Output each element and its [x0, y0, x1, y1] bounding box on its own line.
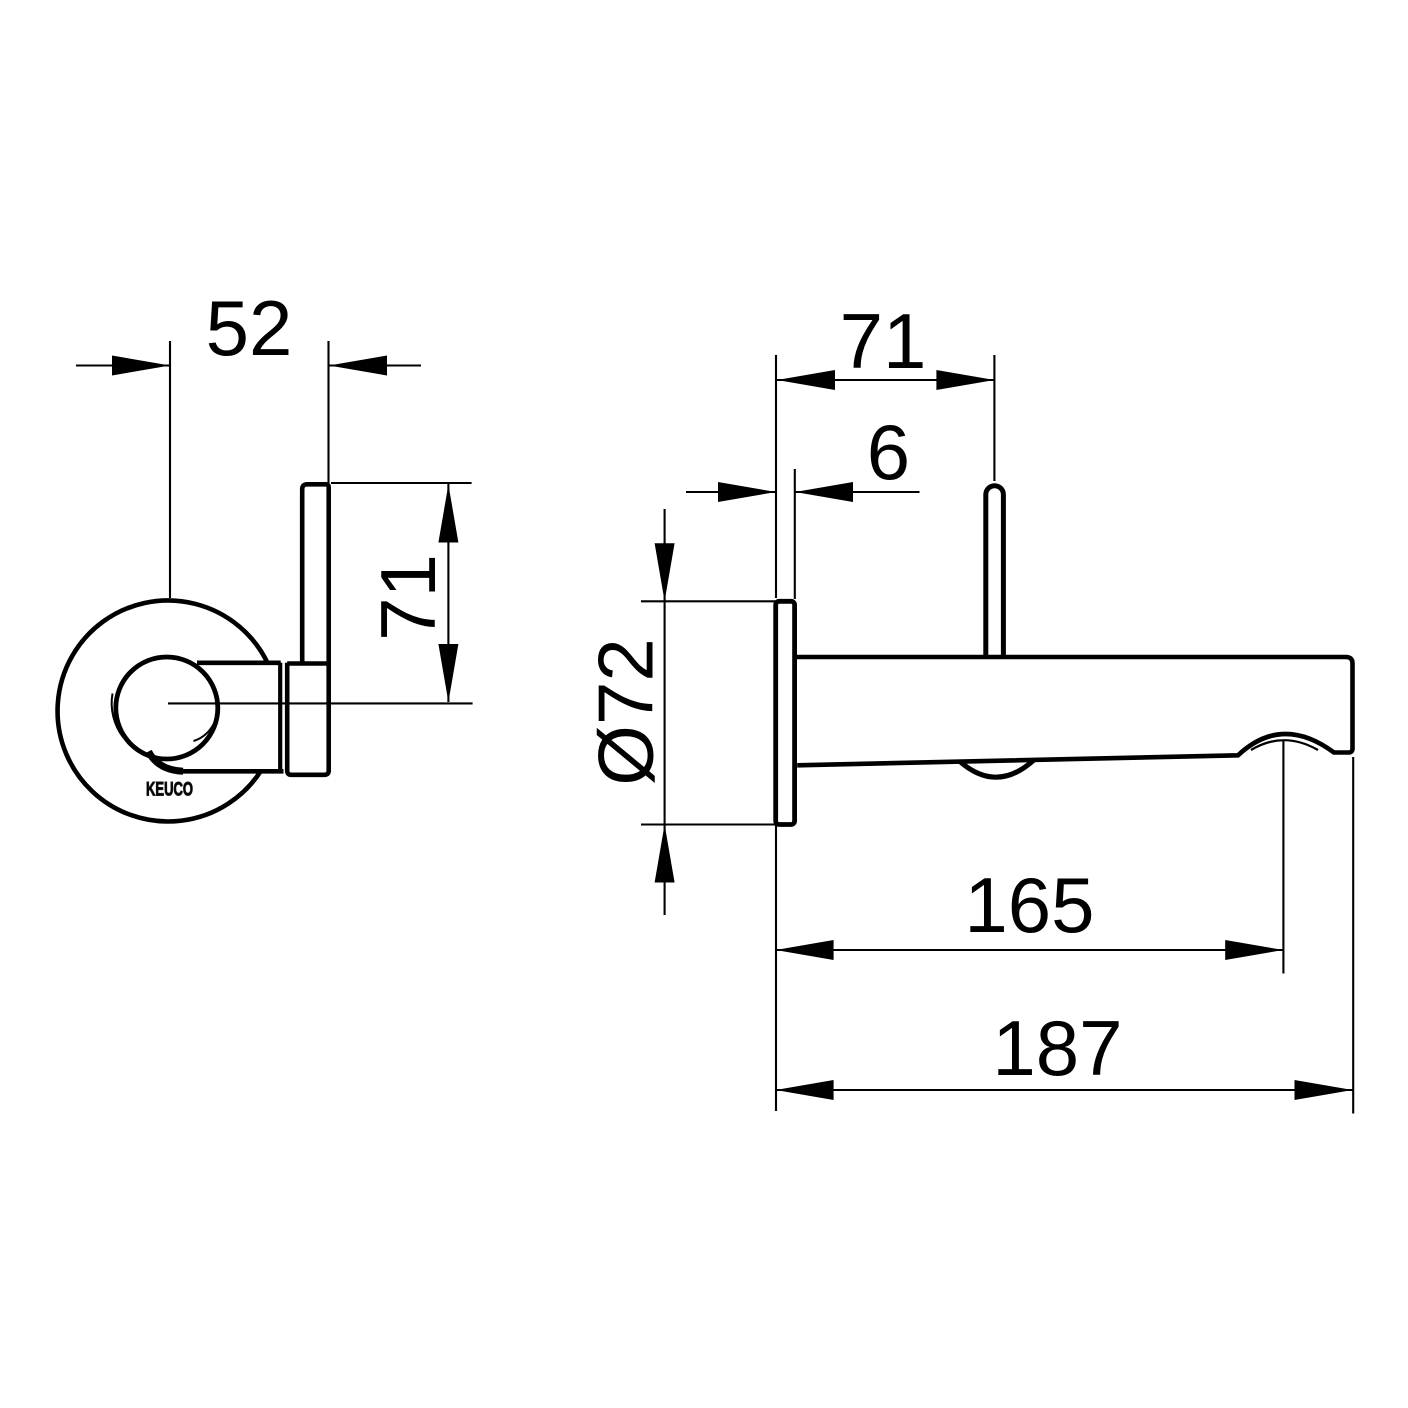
dimension line 71 right view — [777, 379, 994, 381]
extension line wall bottom — [775, 824, 777, 1111]
extension line lever axis — [993, 355, 995, 481]
diameter dimension line — [664, 509, 666, 915]
svg-text:165: 165 — [964, 861, 1094, 949]
arrow 71L bottom — [438, 644, 458, 702]
arrow diameter bottom — [655, 825, 675, 883]
dimension line 187 — [776, 1089, 1353, 1091]
diameter top tick — [641, 600, 776, 602]
handle hub ring — [116, 657, 218, 759]
extension line wall surface top — [775, 355, 777, 598]
arrow 165 left — [776, 940, 834, 960]
arrow 71R right — [936, 370, 994, 390]
extension line aerator — [1282, 741, 1284, 974]
dimension line 71 left view — [447, 484, 449, 702]
arrow 187 right — [1295, 1080, 1353, 1100]
diameter bottom tick — [641, 823, 776, 825]
arrow 6 right — [795, 482, 853, 502]
dimension line 52 right tail — [329, 364, 421, 366]
svg-text:KEUCO: KEUCO — [146, 780, 193, 801]
hub silhouette thin arc — [112, 694, 124, 738]
lever stick side view — [986, 486, 1004, 656]
extension line from handle edge — [327, 341, 329, 483]
arrow 71L top — [438, 485, 458, 543]
svg-text:Ø72: Ø72 — [582, 638, 670, 785]
svg-text:52: 52 — [206, 284, 293, 372]
escutcheon outer circle — [58, 600, 268, 821]
extension line plate face — [794, 469, 796, 599]
lever handle joint line — [287, 661, 329, 666]
svg-text:71: 71 — [840, 297, 927, 385]
arrow 6 left — [718, 482, 776, 502]
valve body block right edge — [278, 663, 282, 772]
extension line from circle centre — [169, 341, 171, 598]
valve body block bottom edge — [176, 769, 284, 774]
extension line spout tip — [1352, 757, 1354, 1114]
center line — [168, 702, 473, 704]
spout body outline — [797, 657, 1353, 765]
arrow 52 left — [112, 356, 170, 376]
dimension line 6 right tail — [795, 491, 920, 493]
svg-text:6: 6 — [867, 408, 910, 496]
extension line top for 71 left view — [331, 482, 472, 484]
arrow diameter top — [655, 543, 675, 601]
arrow 165 right — [1225, 940, 1283, 960]
dimension line 6 left tail — [686, 491, 776, 493]
lever handle outline — [287, 484, 329, 775]
arrow 187 left — [776, 1080, 834, 1100]
svg-text:187: 187 — [992, 1004, 1122, 1092]
dimension line 52 left tail — [76, 364, 170, 366]
arrow 52 right — [329, 356, 387, 376]
hub bottom fillet blob — [149, 752, 184, 772]
svg-text:71: 71 — [364, 554, 452, 641]
hub inner thin arc bottom-right — [194, 720, 217, 742]
arrow 71R left — [777, 370, 835, 390]
underside lens arc — [960, 760, 1034, 777]
wall plate — [776, 601, 795, 824]
dimension line 165 — [776, 949, 1284, 951]
valve body block top edge — [197, 660, 281, 665]
aerator inner thin arc — [1251, 740, 1318, 750]
